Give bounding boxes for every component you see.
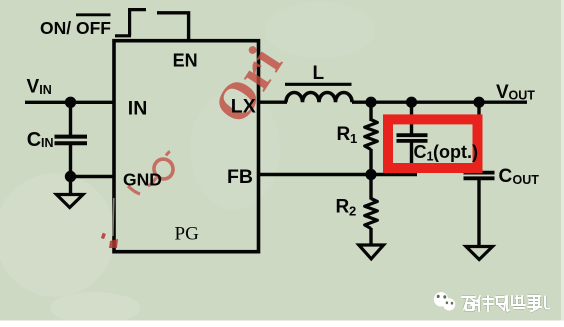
svg-text:ON/ OFF: ON/ OFF — [40, 18, 111, 38]
wire LX output — [257, 100, 287, 103]
svg-text:FB: FB — [227, 166, 253, 188]
op-amp U1 : regulator IC body — [114, 41, 259, 252]
svg-text:R: R — [336, 196, 350, 217]
svg-text:V: V — [496, 82, 509, 103]
resistor R2 — [365, 199, 378, 229]
svg-text:OUT: OUT — [513, 173, 540, 187]
inductor L — [286, 92, 352, 102]
svg-text:C: C — [499, 166, 513, 187]
svg-text:IN: IN — [41, 136, 54, 150]
wire VOUT rail — [352, 100, 527, 103]
resistor R1 — [365, 120, 378, 150]
svg-text:C: C — [414, 142, 427, 162]
pulse edge symbol — [115, 10, 146, 36]
svg-text:IN: IN — [128, 97, 148, 119]
wire C_IN top — [69, 102, 72, 135]
node: C1 top junction — [406, 97, 417, 108]
faint smudge left of IC — [0, 173, 115, 297]
node: GND junction — [65, 171, 76, 182]
wire ground stem — [69, 177, 72, 194]
wire R2 top — [369, 175, 372, 200]
svg-text:(opt.): (opt.) — [433, 142, 478, 162]
wire R1 top — [369, 102, 372, 121]
svg-text:EN: EN — [173, 51, 198, 71]
ground (R2) — [359, 245, 384, 259]
wire C1 top — [410, 102, 413, 133]
red watermark blob at IC corner — [101, 233, 118, 248]
red watermark ring near GND — [128, 152, 175, 195]
overline OFF — [76, 13, 111, 16]
node: COUT junction — [473, 97, 484, 108]
wire FB — [257, 173, 417, 176]
node: R1 top junction — [365, 97, 376, 108]
red watermark text Ori — [203, 37, 293, 133]
svg-text:R: R — [337, 124, 351, 145]
faint smudge inside IC — [190, 90, 280, 210]
faint smudge bottom left swirl — [50, 292, 140, 324]
bottom white strip — [0, 321, 564, 327]
wire EN — [157, 13, 189, 40]
inductor top bar — [285, 83, 352, 86]
red highlight box around C1 — [388, 119, 478, 168]
right edge light strip — [561, 0, 564, 321]
node: VIN junction — [65, 97, 76, 108]
wire COUT bottom — [477, 180, 480, 246]
wire R2 bottom — [369, 228, 372, 245]
svg-text:GND: GND — [123, 170, 162, 190]
wire C_IN bottom — [69, 145, 72, 177]
svg-text:PG: PG — [175, 224, 200, 245]
wire IN input — [25, 101, 113, 104]
svg-text:1: 1 — [350, 131, 357, 146]
wire C1 bottom — [410, 143, 413, 175]
svg-text:OUT: OUT — [509, 89, 536, 103]
capacitor COUT — [464, 173, 495, 179]
svg-text:2: 2 — [349, 204, 356, 219]
capacitor C1 — [397, 135, 428, 141]
svg-text:V: V — [27, 76, 40, 97]
svg-text:LX: LX — [231, 96, 256, 118]
ground (CIN) — [57, 195, 84, 208]
node: R1/FB junction — [365, 169, 376, 180]
wire R1 bottom — [369, 149, 372, 175]
capacitor CIN — [55, 137, 88, 144]
svg-text:C: C — [27, 129, 41, 151]
watermark chinese text 硬件那些事儿 (drawn strokes) — [462, 296, 549, 311]
svg-text:L: L — [313, 63, 325, 84]
svg-text:IN: IN — [39, 83, 52, 97]
wire GND pin — [71, 175, 114, 178]
watermark logo circles — [434, 292, 456, 310]
gray watermark streak — [113, 198, 114, 236]
ground (COUT) — [466, 247, 493, 260]
wire COUT top — [477, 102, 480, 171]
faint smudge above inductor — [265, 2, 375, 58]
